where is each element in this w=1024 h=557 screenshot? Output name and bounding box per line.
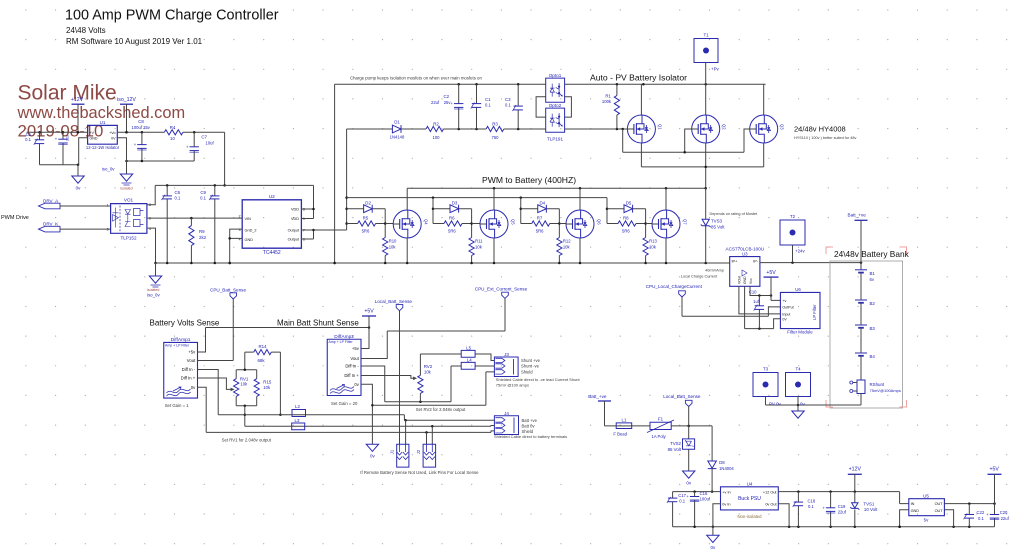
terminal T2 [780, 220, 805, 245]
wire pwm top rail [407, 188, 706, 210]
wire local_batt stem [399, 311, 401, 444]
svg-text:Set Gain = 1: Set Gain = 1 [165, 403, 190, 408]
wire VDD rail [155, 184, 313, 186]
battery B4 [855, 352, 867, 354]
svg-text:TC4452: TC4452 [263, 250, 281, 256]
wire D8 to U4 [711, 469, 713, 492]
wire psu 0v rail [673, 526, 995, 528]
svg-text:PWM Drive: PWM Drive [1, 215, 29, 221]
svg-text:2: 2 [239, 215, 241, 219]
svg-text:3: 3 [107, 228, 109, 232]
svg-text:GND: GND [90, 136, 98, 140]
wire +5V stem (psu) [994, 474, 996, 503]
inductor L5 [461, 350, 475, 357]
svg-text:J3: J3 [504, 352, 509, 357]
svg-text:Q4: Q4 [424, 219, 429, 225]
wire stage tap D4 [520, 198, 522, 224]
transistor Q5 [480, 210, 508, 238]
wire drain Q6 [579, 188, 581, 210]
wire charge pump left [334, 84, 336, 263]
wire rv2 bottom rail [385, 401, 451, 403]
battery B1 [855, 269, 867, 271]
svg-text:Q2: Q2 [722, 124, 727, 130]
battery B3 [855, 324, 867, 326]
svg-text:R12: R12 [563, 239, 571, 244]
svg-text:L1: L1 [622, 418, 627, 423]
svg-text:F Bead: F Bead [613, 431, 627, 436]
terminal T4 [786, 373, 811, 397]
capacitor C16 [694, 492, 696, 527]
svg-text:T3: T3 [763, 367, 769, 372]
transistor Q3 [750, 115, 778, 143]
svg-text:0.1: 0.1 [978, 516, 984, 521]
wire opto left loop [536, 97, 546, 117]
wire U2 VDD stubs [301, 185, 313, 218]
svg-text:iso_0v: iso_0v [102, 167, 115, 172]
wire +12 rail [778, 492, 909, 504]
wire U1 +Vo rail [117, 131, 164, 133]
svg-text:D8: D8 [719, 460, 725, 465]
svg-text:0v: 0v [370, 454, 376, 459]
wire top rail right [565, 83, 766, 85]
wire input 0v rail [40, 164, 79, 166]
ground iso (main rail) [155, 263, 157, 276]
svg-text:+Vo: +Vo [109, 131, 115, 135]
svg-text:F1: F1 [658, 416, 664, 421]
resistor R7 [521, 223, 560, 225]
wire Q1 drain [640, 84, 642, 115]
svg-text:6v: 6v [870, 277, 875, 282]
resistor RShunt [857, 380, 865, 394]
svg-text:C20: C20 [1000, 510, 1008, 515]
svg-text:0v: 0v [76, 186, 82, 191]
svg-text:TVS2: TVS2 [670, 441, 682, 446]
svg-text:+24v: +24v [795, 249, 805, 254]
svg-text:75mV @100 amps: 75mV @100 amps [496, 383, 529, 388]
svg-text:U4: U4 [747, 481, 753, 486]
wire U2 output stubs [301, 230, 313, 239]
wire diffamp2 in- [361, 366, 385, 402]
capacitor C4 [62, 132, 64, 164]
wire source Q5 [493, 238, 495, 263]
diode TVS1 [854, 474, 856, 527]
svg-text:RV1: RV1 [240, 376, 249, 381]
wire J1 pin2 [405, 420, 407, 444]
svg-text:TVS3: TVS3 [711, 219, 723, 224]
svg-text:C17: C17 [678, 493, 686, 498]
wire caps rail [673, 491, 721, 493]
wire vdd drop [224, 132, 226, 185]
svg-text:10k: 10k [475, 245, 483, 250]
svg-text:Charge pump keeps Isolation mo: Charge pump keeps Isolation mosfets on w… [350, 76, 482, 81]
inductor L2 [292, 410, 306, 417]
svg-text:0.1: 0.1 [485, 102, 491, 107]
wire rv1 bottom drop [244, 406, 246, 427]
ground (T4) [797, 405, 799, 411]
svg-text:J2: J2 [416, 449, 421, 454]
wire drain Q7 [665, 188, 667, 210]
svg-text:Shielded Cable direct to batte: Shielded Cable direct to battery termina… [494, 434, 567, 439]
svg-text:R2: R2 [433, 121, 439, 126]
svg-text:C22: C22 [977, 510, 985, 515]
svg-text:750: 750 [492, 135, 500, 140]
svg-text:HYS110 ( 100v ) better suited: HYS110 ( 100v ) better suited for 48v [794, 136, 857, 140]
wire U5 gnd [900, 510, 909, 527]
resistor R14 [245, 352, 281, 415]
svg-text:85 Volt: 85 Volt [668, 447, 682, 452]
wire stage D4 right [558, 209, 560, 238]
svg-text:U6: U6 [795, 287, 801, 292]
svg-text:Main Batt Shunt Sense: Main Batt Shunt Sense [277, 319, 359, 328]
svg-text:GND: GND [911, 509, 920, 513]
wire input rail [27, 131, 88, 133]
svg-text:IP+: IP+ [732, 259, 739, 263]
svg-text:25v: 25v [444, 100, 452, 105]
svg-text:C10: C10 [749, 290, 757, 295]
svg-text:100uf 25v: 100uf 25v [132, 125, 151, 130]
power +5V (acs) [764, 276, 779, 278]
svg-text:D4: D4 [539, 200, 545, 205]
svg-text:10: 10 [170, 136, 175, 141]
svg-text:B2: B2 [870, 301, 876, 306]
capacitor C10 [758, 296, 760, 329]
svg-text:IN: IN [911, 502, 915, 506]
resistor R12 [557, 238, 562, 256]
wire R4 to drop [183, 131, 225, 133]
svg-text:R10: R10 [389, 239, 397, 244]
svg-text:5v: 5v [924, 517, 929, 522]
battery bank box [830, 261, 903, 408]
transistor Q6 [566, 210, 594, 238]
svg-text:22uf: 22uf [1001, 516, 1010, 521]
svg-text:Q3: Q3 [780, 124, 785, 130]
ground iso_0v (isolated) [126, 161, 128, 174]
svg-text:DiffAmp2: DiffAmp2 [334, 334, 354, 340]
svg-text:TLP152: TLP152 [120, 236, 137, 241]
svg-text:R11: R11 [475, 239, 483, 244]
inductor L4 [461, 362, 475, 369]
svg-text:VDD: VDD [291, 217, 299, 221]
resistor R13 [643, 238, 648, 256]
optocoupler Opto1 [546, 78, 565, 102]
svg-text:DRV_K: DRV_K [43, 222, 59, 227]
wire J2 pins [427, 426, 433, 444]
connector J1 [397, 444, 409, 467]
svg-text:Vcc: Vcc [749, 278, 753, 284]
wire local sense stem [688, 407, 690, 426]
svg-text:85 Volt: 85 Volt [711, 224, 725, 229]
optocoupler VO1 TLP152 [111, 204, 147, 234]
svg-text:0.1: 0.1 [505, 102, 511, 107]
wire gate Q6 [559, 223, 566, 225]
svg-text:OUT: OUT [935, 502, 944, 506]
svg-text:C8: C8 [138, 119, 144, 124]
svg-text:Diff In +: Diff In + [344, 373, 359, 378]
svg-text:24/48v HY4008: 24/48v HY4008 [794, 125, 846, 134]
svg-text:U1: U1 [100, 120, 106, 125]
potentiometer RV2 [419, 354, 421, 402]
capacitor C8 [141, 132, 143, 161]
wire diffamp1 0v [198, 387, 207, 432]
svg-text:CPU_Local_ChargeCurrent: CPU_Local_ChargeCurrent [646, 284, 703, 289]
svg-text:VO1: VO1 [124, 198, 134, 203]
diode D3 [433, 208, 472, 210]
svg-text:10k: 10k [389, 245, 397, 250]
wire stage D2 right [384, 209, 386, 238]
svg-text:1uf: 1uf [753, 299, 760, 304]
capacitor C22 [968, 504, 970, 527]
svg-text:+: + [451, 101, 454, 106]
svg-text:Q1: Q1 [658, 124, 663, 130]
capacitor C2 [458, 84, 460, 129]
wire T2 stem [792, 245, 794, 263]
svg-text:5R6: 5R6 [362, 229, 370, 234]
wire U3 out rail [760, 262, 861, 264]
svg-text:Local Charge Current: Local Charge Current [681, 274, 718, 278]
wire U1 0V stub [117, 138, 126, 161]
svg-text:C7: C7 [201, 134, 207, 139]
svg-text:10k: 10k [240, 382, 248, 387]
svg-text:R1: R1 [605, 94, 611, 99]
svg-text:Buck PSU: Buck PSU [738, 496, 761, 502]
svg-text:RM Software 10 August 2019 Ver: RM Software 10 August 2019 Ver 1.01 [66, 37, 203, 46]
IC U5 regulator [909, 499, 945, 516]
svg-text:+v: +v [782, 299, 786, 303]
svg-text:TVS1: TVS1 [863, 501, 875, 506]
resistor R6 [433, 223, 472, 225]
svg-text:T4: T4 [795, 367, 801, 372]
svg-text:R14: R14 [258, 344, 267, 349]
wire diffamp2 in+ [361, 376, 414, 379]
svg-text:B4: B4 [870, 354, 876, 359]
svg-text:isolated: isolated [120, 187, 132, 191]
svg-text:U2: U2 [269, 194, 275, 200]
svg-text:R4: R4 [170, 125, 176, 130]
svg-text:GND: GND [743, 276, 747, 284]
wire U3 vcc [750, 286, 771, 295]
svg-text:Set RV2 for 2.048v output: Set RV2 for 2.048v output [416, 407, 466, 412]
resistor R2 [426, 126, 444, 131]
svg-text:U5: U5 [923, 493, 929, 498]
svg-text:Shielded Cable direct to -ve l: Shielded Cable direct to -ve lead Curren… [496, 377, 581, 382]
resistor R5 [347, 223, 386, 225]
svg-text:T1: T1 [703, 33, 709, 38]
wire gate rail segD [504, 128, 546, 130]
svg-text:5R6: 5R6 [622, 229, 630, 234]
power +5V (psu) [988, 473, 1002, 475]
svg-text:+v In: +v In [722, 490, 730, 494]
wire stage D3 right [471, 209, 473, 238]
svg-text:R9: R9 [199, 229, 205, 234]
svg-text:Batt 0v: Batt 0v [522, 424, 536, 429]
svg-text:1N4148: 1N4148 [390, 135, 405, 140]
wire drive rail h [347, 197, 607, 199]
svg-text:+Pv: +Pv [711, 67, 719, 72]
svg-text:+12 Out: +12 Out [763, 490, 778, 494]
connector J3 [494, 357, 518, 377]
svg-text:U3: U3 [742, 252, 748, 257]
svg-text:B3: B3 [870, 326, 876, 331]
svg-text:Shield: Shield [521, 370, 533, 375]
svg-text:Amp + LP Filter: Amp + LP Filter [165, 343, 190, 347]
svg-text:Non-isolated: Non-isolated [737, 514, 762, 519]
svg-text:1A Poly: 1A Poly [652, 434, 667, 439]
svg-text:C9: C9 [200, 190, 206, 195]
svg-text:GnD_2: GnD_2 [245, 229, 257, 233]
wire diffamp1 vout [198, 360, 234, 362]
wire U5 out rail [944, 503, 994, 505]
wire T4 stub [797, 397, 799, 406]
wire L5 run [420, 354, 494, 361]
svg-text:+V: +V [90, 131, 95, 135]
svg-text:L2: L2 [295, 404, 300, 409]
svg-text:22uf: 22uf [431, 100, 440, 105]
diode D4 [521, 208, 560, 210]
svg-text:12-12-1W Isolator: 12-12-1W Isolator [86, 145, 120, 150]
resistor R10 [383, 238, 388, 256]
wire gate rail segC [444, 128, 487, 130]
wire U1 GND stub [79, 138, 88, 165]
fuse F1 [650, 422, 671, 429]
inductor L1 [616, 423, 632, 429]
wire psu rail [605, 426, 713, 461]
capacitor C5 [39, 132, 41, 164]
wire VO1 output [147, 217, 242, 219]
svg-text:+5v: +5v [352, 346, 360, 351]
svg-text:5R6: 5R6 [536, 229, 544, 234]
svg-text:LP Filter: LP Filter [812, 304, 817, 320]
svg-text:+: + [686, 494, 689, 499]
svg-text:Batt +ve: Batt +ve [522, 418, 538, 423]
svg-text:0V: 0V [111, 136, 116, 140]
resistor R15 [254, 379, 259, 397]
svg-text:+: + [186, 144, 189, 149]
IC U4 buck psu [721, 487, 779, 510]
wire bank stem [860, 220, 862, 269]
IC U1 DC-DC isolator [88, 125, 118, 144]
wire 0v rail [206, 431, 494, 433]
resistor R1 [616, 84, 618, 129]
wire diffamp2 vout [361, 298, 505, 358]
connector J4 [494, 416, 518, 435]
svg-text:10k: 10k [263, 385, 271, 390]
svg-text:PV 0v: PV 0v [769, 401, 782, 406]
svg-text:10k: 10k [563, 245, 571, 250]
svg-text:0v: 0v [800, 401, 805, 406]
svg-text:L3: L3 [295, 418, 300, 423]
wire rshunt bottom [766, 394, 862, 406]
svg-text:RV2: RV2 [424, 364, 433, 369]
wire bank string [860, 273, 862, 380]
IC U3 ACS770 [730, 257, 760, 287]
svg-text:R5: R5 [363, 216, 369, 221]
diode D5 [607, 208, 646, 210]
svg-text:100k: 100k [602, 99, 612, 104]
svg-text:C3: C3 [505, 97, 511, 102]
svg-text:C2: C2 [443, 94, 449, 99]
battery B2 [855, 299, 867, 301]
svg-text:Solar Mike: Solar Mike [18, 82, 117, 105]
wire T3 stub [765, 397, 767, 406]
wire U6 0V stub [774, 319, 781, 329]
svg-text:0v: 0v [686, 480, 692, 485]
svg-text:DiffAmp1: DiffAmp1 [171, 337, 191, 343]
svg-text:0v In: 0v In [722, 502, 730, 506]
svg-text:Local_Batt_Sense: Local_Batt_Sense [663, 394, 701, 399]
svg-text:Q7: Q7 [682, 219, 687, 225]
wire L4 run [451, 366, 494, 402]
wire source Q7 [665, 238, 667, 263]
svg-text:IP-: IP- [753, 259, 759, 263]
svg-text:Opto1: Opto1 [549, 73, 562, 78]
capacitor C7 [193, 132, 195, 161]
svg-text:If Remote Battery Sense Not Us: If Remote Battery Sense Not Used, Link P… [360, 470, 479, 475]
svg-text:Diff In -: Diff In - [182, 367, 196, 372]
capacitor C3 [517, 84, 519, 129]
transistor Q2 [692, 115, 720, 143]
svg-text:OUT: OUT [935, 509, 944, 513]
svg-text:5R6: 5R6 [448, 229, 456, 234]
wire U4 0v in [713, 504, 721, 527]
svg-text:CPU_Ext_Current_Sense: CPU_Ext_Current_Sense [475, 287, 528, 292]
wire +5V stem (sense) [368, 316, 370, 328]
capacitor C18 [797, 492, 799, 527]
capacitor C20 [994, 504, 996, 527]
IC U6 LP filter [780, 292, 820, 328]
svg-text:CPU_Batt_Sense: CPU_Batt_Sense [210, 288, 246, 293]
wire diffamp2 0v [361, 384, 372, 444]
wire batt stem [604, 401, 606, 426]
wire U2 gnd stubs [230, 229, 243, 263]
svg-text:0.1: 0.1 [200, 196, 206, 201]
svg-text:D2: D2 [365, 200, 371, 205]
svg-text:1N4004: 1N4004 [719, 466, 734, 471]
svg-text:PWM to Battery (400HZ): PWM to Battery (400HZ) [482, 175, 576, 185]
terminal T1 [694, 39, 718, 63]
svg-text:Output: Output [288, 238, 300, 242]
wire source Q6 [579, 238, 581, 263]
svg-text:0.1: 0.1 [679, 498, 685, 503]
svg-text:B1: B1 [870, 271, 876, 276]
svg-text:+5v: +5v [188, 350, 196, 355]
wire iso_12V stem [126, 104, 128, 132]
connector J2 [423, 444, 436, 467]
svg-text:TLP191: TLP191 [547, 137, 564, 142]
svg-text:2k2: 2k2 [199, 235, 207, 240]
svg-text:D1: D1 [394, 120, 400, 125]
wire U2 output run [314, 229, 347, 231]
svg-text:Filter Module: Filter Module [787, 330, 813, 335]
wire gate Q4 [385, 223, 393, 225]
svg-text:0.1: 0.1 [808, 504, 814, 509]
svg-text:0v: 0v [191, 385, 196, 390]
svg-text:R3: R3 [492, 121, 498, 126]
wire U6 output run [682, 297, 780, 316]
svg-text:RShunt: RShunt [870, 382, 885, 387]
wire gate rail segB [401, 128, 426, 130]
svg-text:100uf: 100uf [700, 496, 711, 501]
wire diffamp1 in- [198, 370, 219, 415]
svg-text:22uf: 22uf [838, 510, 847, 515]
svg-text:40mV/Amp: 40mV/Amp [705, 268, 724, 272]
svg-text:0v: 0v [711, 545, 717, 550]
svg-text:Shunt +ve: Shunt +ve [521, 358, 541, 363]
svg-text:0v: 0v [354, 382, 359, 387]
svg-text:Batt_+ve: Batt_+ve [588, 394, 607, 399]
svg-text:Diff In +: Diff In + [181, 376, 196, 381]
svg-text:10k: 10k [424, 370, 432, 375]
svg-text:+5V: +5V [364, 309, 374, 315]
